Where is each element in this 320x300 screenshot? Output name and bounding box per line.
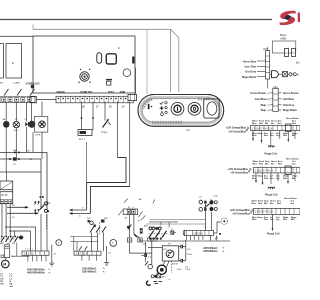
- svg-text:230V/60Hz/1: 230V/60Hz/1: [82, 271, 97, 274]
- svg-text:1 3 5 8 2 7 4 6 1 3 8: 1 3 5 8 2 7 4 6 1 3 8: [252, 129, 273, 131]
- switch S2: [17, 89, 22, 96]
- C22 stubs left: [270, 93, 281, 110]
- bus L2: [0, 157, 41, 209]
- svg-text:KM M: KM M: [172, 263, 178, 265]
- purge coil B: [268, 187, 275, 188]
- pump circle small: [148, 264, 153, 269]
- aux lamp mid: [101, 220, 105, 223]
- terminal numbers: [82, 104, 125, 108]
- pendant C2: [138, 95, 224, 127]
- svg-text:Out Grey: Out Grey: [245, 71, 256, 74]
- fuse F1: [13, 157, 17, 160]
- dark marks right block: [149, 227, 161, 230]
- MSB outline box: [272, 41, 296, 53]
- contact block mid labels: [87, 218, 108, 220]
- pendant button 1: [171, 102, 184, 115]
- aux box left: [1, 255, 4, 258]
- contact block labels: [0, 242, 15, 245]
- vertical wires far right strip: [210, 236, 216, 241]
- connector row A labels top: [252, 117, 300, 125]
- svg-text:Jout Blue: Jout Blue: [255, 98, 267, 101]
- wires below strip mid: [82, 255, 96, 261]
- svg-text:Wup: Wup: [261, 104, 267, 107]
- bottom small parts: [151, 274, 170, 281]
- relay m1: [285, 49, 289, 57]
- led square on board: [107, 81, 111, 85]
- svg-text:Horse Brown: Horse Brown: [250, 92, 266, 95]
- svg-text:Wup: Wup: [261, 109, 267, 112]
- connector C22: [273, 88, 278, 111]
- svg-text:Purge Coil: Purge Coil: [265, 194, 278, 197]
- diamond symbol: [289, 72, 293, 76]
- svg-text:+12V Orange/Blue: +12V Orange/Blue: [227, 168, 248, 171]
- svg-text:400V/3Ph/60Hz: 400V/3Ph/60Hz: [27, 272, 45, 275]
- wire box top left: [0, 35, 33, 37]
- terminal strip under box: [30, 96, 134, 108]
- svg-text:24: 24: [122, 104, 125, 108]
- svg-text:GN: GN: [0, 284, 4, 286]
- board bottom labels: [57, 91, 126, 94]
- terminal strip right: [184, 227, 213, 236]
- lamp H4 box: [35, 117, 48, 137]
- wires J1 down: [130, 215, 140, 238]
- svg-text:+12V Orange/Blue: +12V Orange/Blue: [229, 209, 250, 212]
- contact marks J wire: [127, 225, 131, 230]
- hatch left J1: [118, 199, 128, 216]
- svg-text:PWR: PWR: [120, 92, 126, 94]
- row B wires down: [256, 173, 295, 184]
- svg-text:26: 26: [109, 104, 112, 108]
- connector row C labels top: [252, 197, 298, 205]
- svg-text:9V 2P: 9V 2P: [1, 195, 8, 197]
- svg-text:(7): (7): [267, 105, 270, 107]
- wire jog to cable pair: [87, 158, 130, 214]
- wires trafo down: [2, 204, 47, 251]
- svg-text:m: m: [82, 208, 84, 210]
- svg-text:GB: GB: [2, 119, 6, 121]
- purge coil A: [268, 143, 275, 147]
- link dashed mid: [99, 222, 101, 235]
- svg-text:W: W: [128, 207, 130, 209]
- svg-text:M: M: [3, 263, 6, 267]
- svg-text:Magn Black: Magn Black: [242, 76, 257, 79]
- svg-text:Horse Brown: Horse Brown: [283, 92, 299, 95]
- arrow left pair: [69, 208, 90, 218]
- svg-text:C2uF: C2uF: [187, 254, 193, 256]
- wires lamps to buses: [6, 127, 42, 172]
- row B bottom labels: [252, 175, 298, 180]
- contactor contacts right: [149, 231, 167, 238]
- line y2195: [150, 219, 206, 221]
- svg-text:Horse Blue: Horse Blue: [243, 60, 257, 63]
- svg-text:ATC 1: ATC 1: [79, 138, 86, 141]
- relay block left small: [0, 44, 3, 79]
- svg-text:Stop: Stop: [258, 132, 263, 135]
- terminal strip left bottom: [22, 249, 49, 256]
- svg-text:28: 28: [82, 104, 85, 108]
- battery mark: [31, 85, 34, 88]
- indicator icons: [159, 102, 167, 116]
- wires to strip mid: [92, 233, 104, 252]
- row C bottom labels: [252, 216, 297, 221]
- svg-text:M: M: [138, 221, 140, 223]
- bus L3: [0, 171, 41, 173]
- logo S red: [279, 11, 300, 25]
- capacitor C6b: [181, 259, 183, 263]
- svg-text:TEST: TEST: [108, 92, 114, 94]
- wire pe bottom: [12, 243, 30, 257]
- twisted pair symbols: [34, 201, 39, 211]
- arrow right 24: [7, 212, 39, 219]
- resistor ATC1: [78, 130, 92, 142]
- wires strip right down: [187, 236, 203, 241]
- wires compressor: [148, 239, 186, 265]
- label 230V right circuit: [203, 247, 225, 254]
- feed line right block: [149, 222, 178, 228]
- wire top bus: [0, 19, 272, 21]
- ground mid: [104, 263, 109, 266]
- dashed link e6: [210, 199, 212, 212]
- label 400V: [27, 268, 51, 275]
- squiggle B: [248, 168, 251, 172]
- svg-text:K: K: [118, 46, 120, 50]
- svg-text:Stop: Stop: [258, 216, 263, 219]
- wires into motor right: [152, 261, 169, 267]
- row C left labels: [229, 209, 250, 216]
- contactor KM contacts mid: [90, 227, 106, 233]
- wire pendant cable vertical: [171, 29, 179, 92]
- svg-text:IW: IW: [125, 218, 128, 220]
- row A left labels: [225, 127, 246, 134]
- squiggle A: [246, 127, 249, 131]
- row B left labels: [227, 168, 248, 175]
- svg-text:Wht: Wht: [283, 177, 287, 180]
- svg-text:COMB: COMB: [13, 83, 20, 85]
- svg-text:MSB: MSB: [281, 37, 287, 41]
- lamp GB2: [18, 236, 23, 240]
- row A wires down: [253, 131, 295, 144]
- switch S1: [4, 89, 9, 96]
- circle symbol: [293, 73, 296, 76]
- contact block right labels: [144, 225, 149, 228]
- bus L1: [0, 150, 47, 209]
- svg-text:230V/60Hz/1: 230V/60Hz/1: [203, 250, 218, 253]
- transformer T1: [0, 172, 13, 204]
- hatch right J1: [138, 211, 145, 220]
- dashes bottom: [154, 282, 163, 284]
- wire box to pendant drop: [146, 29, 148, 94]
- svg-text:5 6 0 1 3: 5 6 0 1 3: [24, 253, 34, 256]
- feed lines mid: [70, 237, 98, 252]
- wire down to pump: [130, 242, 152, 262]
- wire to ground mid: [106, 246, 108, 263]
- labels above switches: [0, 83, 40, 86]
- motor wire codes: [0, 274, 13, 289]
- bus mid1: [6, 227, 35, 251]
- dashed link compressor: [170, 261, 172, 273]
- svg-text:24B: 24B: [104, 218, 108, 220]
- ground right strip: [215, 238, 218, 241]
- svg-text:Bown: Bown: [280, 33, 287, 37]
- led bar on board: [106, 79, 112, 80]
- lamp wires down from left strip: [6, 102, 31, 121]
- lamp H3: [29, 121, 35, 127]
- buzzer circle on board: [123, 69, 131, 77]
- lamp H2: [13, 119, 19, 132]
- connector mark right: [219, 233, 221, 235]
- aux box right: [171, 229, 177, 234]
- svg-text:(5): (5): [267, 110, 270, 112]
- svg-text:WATER: WATER: [57, 91, 65, 94]
- svg-text:Aux / Run: Aux / Run: [244, 66, 256, 69]
- switch blade e6: [204, 204, 209, 208]
- pendant stop button: [204, 99, 219, 118]
- wire connector drop: [135, 68, 137, 95]
- pendant button 2: [188, 102, 201, 115]
- row A bottom labels: [252, 132, 298, 137]
- svg-text:12uF: 12uF: [177, 269, 183, 271]
- motor M right: [157, 265, 166, 274]
- link dashed: [45, 214, 47, 230]
- svg-text:GB: GB: [138, 199, 142, 201]
- svg-text:7 A: 7 A: [187, 248, 191, 251]
- svg-text:Anti Blue: Anti Blue: [283, 98, 295, 101]
- lamp H1: [2, 119, 9, 127]
- C22 pin numbers: [266, 93, 270, 112]
- terminal strip left: [0, 97, 35, 103]
- wire box to motor: [5, 258, 7, 261]
- relay square on board: [106, 54, 116, 64]
- relay m2: [292, 49, 296, 57]
- label 230V mid: [82, 267, 106, 274]
- svg-text:Magn Black: Magn Black: [283, 109, 298, 112]
- row C wire down: [272, 214, 274, 231]
- wire corner to lamp: [214, 222, 221, 233]
- relay K1: [6, 44, 22, 79]
- svg-text:GN: GN: [10, 286, 14, 288]
- pendant connector: [128, 94, 137, 100]
- contactor K1 contacts: [1, 236, 18, 242]
- switch S3: [30, 89, 35, 96]
- svg-text:Wht: Wht: [283, 218, 287, 221]
- connector X1 vertical: [266, 51, 270, 80]
- relay coil left dark: [140, 228, 143, 233]
- wires e6: [206, 204, 212, 230]
- svg-text:Purge Coil: Purge Coil: [265, 153, 278, 156]
- switch blades mid strip: [79, 246, 87, 250]
- svg-text:PURG: PURG: [101, 132, 108, 134]
- svg-text:(26): (26): [266, 99, 270, 101]
- svg-text:1 3 5 8 2 7 4 6 1 3: 1 3 5 8 2 7 4 6 1 3: [255, 171, 274, 173]
- svg-text:T: T: [112, 241, 114, 245]
- MSB header text: [280, 33, 287, 41]
- svg-text:+5V Green/Blue: +5V Green/Blue: [230, 172, 248, 175]
- svg-text:24F: 24F: [142, 244, 146, 246]
- wire pendant cable horizontal: [33, 25, 171, 30]
- svg-text:+5V Green/Blue: +5V Green/Blue: [228, 130, 246, 133]
- X1 labels: [242, 60, 257, 79]
- capacitor pill on board: [97, 53, 102, 63]
- switch purge: [101, 119, 111, 134]
- tick mark: [153, 200, 155, 204]
- capacitor C10: [141, 254, 152, 259]
- svg-text:1 3 5 8 2 7 4 6 1 3: 1 3 5 8 2 7 4 6 1 3: [255, 212, 274, 214]
- svg-text:97uF: 97uF: [185, 269, 191, 271]
- e6 contact row1: [199, 200, 217, 204]
- e6 contact row2: [199, 207, 217, 211]
- svg-text:C2: C2: [187, 128, 191, 132]
- wires below strip left: [28, 255, 46, 261]
- knob N1: [78, 69, 90, 83]
- ground left: [49, 245, 54, 267]
- diode C: [24, 119, 28, 127]
- compressor box right: [162, 243, 178, 261]
- capacitor C6a: [181, 245, 183, 249]
- svg-text:Onk Grey: Onk Grey: [283, 104, 295, 107]
- svg-text:7 7 7 7 7: 7 7 7 7 7: [25, 249, 34, 251]
- svg-text:27: 27: [96, 104, 99, 108]
- control box U1: [33, 36, 135, 93]
- long line bottom: [140, 240, 230, 242]
- motor M left: [2, 260, 10, 268]
- svg-text:HYDRAULIC: HYDRAULIC: [26, 83, 40, 86]
- svg-text:24PB: 24PB: [35, 134, 41, 136]
- thermometer icon: [148, 104, 153, 110]
- clamp dark: [146, 281, 150, 285]
- svg-text:+5V Green/Blue: +5V Green/Blue: [232, 213, 250, 216]
- svg-text:m: m: [285, 52, 287, 55]
- strip row small top: [148, 238, 157, 241]
- wire gate row: [270, 73, 294, 75]
- terminal strip mid: [74, 251, 101, 256]
- row B strip: [254, 166, 301, 175]
- aux contact GB: [40, 196, 50, 212]
- wire vertical mid: [85, 142, 87, 183]
- svg-text:Purge Coil: Purge Coil: [267, 232, 280, 235]
- svg-text:MV: MV: [0, 83, 4, 85]
- svg-text:+12V Orange/Blue: +12V Orange/Blue: [225, 127, 246, 130]
- svg-text:m: m: [292, 52, 294, 55]
- bracket strip right: [183, 230, 184, 236]
- wire to lamp H4: [41, 102, 43, 117]
- svg-text:3 5 0 1 8: 3 5 0 1 8: [193, 233, 203, 236]
- valve box: [283, 72, 288, 77]
- overload relay box: [4, 245, 9, 258]
- small boxes bottom mid: [127, 235, 146, 246]
- thermal T left: [56, 240, 62, 246]
- svg-text:(1): (1): [267, 93, 270, 95]
- svg-text:KM: KM: [12, 243, 15, 245]
- svg-text:A8 1: A8 1: [162, 276, 167, 279]
- svg-text:m: m: [169, 279, 171, 281]
- gate: [272, 71, 279, 78]
- squiggle C: [250, 209, 253, 213]
- connector dark on box edge: [132, 57, 134, 64]
- thermal T mid: [110, 240, 117, 247]
- arrow right 28: [7, 205, 29, 209]
- lamp dashed circle: [221, 218, 227, 224]
- junction box J1: [123, 209, 137, 215]
- row C strip: [254, 208, 301, 214]
- stub wires X1: [257, 47, 268, 88]
- svg-text:m: m: [79, 216, 81, 218]
- connector row A strip: [251, 124, 301, 132]
- svg-text:Horse Brown: Horse Brown: [286, 117, 300, 120]
- connector row B labels top: [253, 158, 300, 166]
- aux circle mid: [88, 220, 96, 227]
- C22 labels right: [283, 92, 299, 112]
- svg-text:E: E: [12, 61, 14, 65]
- svg-text:PUMP OUT: PUMP OUT: [81, 92, 94, 94]
- C22 labels left: [250, 92, 266, 112]
- switch diag bottom: [145, 261, 148, 265]
- wires under box strip: [82, 102, 130, 187]
- svg-text:Wht: Wht: [283, 134, 287, 137]
